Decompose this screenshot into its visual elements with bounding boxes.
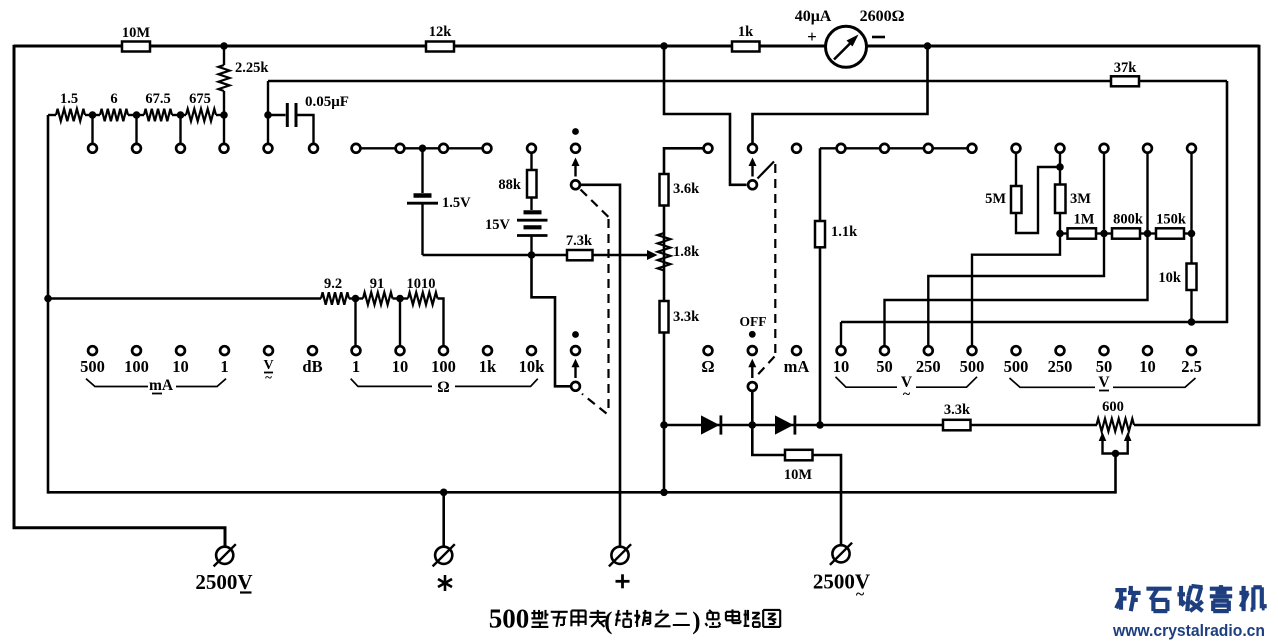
brace V- group [1010,378,1096,387]
wire zero-adjust node y255 [423,254,568,257]
capacitor 0.05uF [286,103,289,127]
resistor 3M branch [1059,152,1061,185]
svg-text:67.5: 67.5 [145,91,170,107]
wire left border [13,45,16,529]
node 1.1k bottom [816,421,824,429]
svg-text:10: 10 [392,357,409,376]
diode row wire [664,424,943,427]
resistor 1k [732,42,760,52]
terminal circles bottom deck row [88,346,97,355]
resistor 5M branch [1015,152,1017,186]
svg-text:1010: 1010 [407,276,436,292]
wire 7.3k to 1.8k wiper arrow [593,254,649,256]
resistor 9.2 91 1010 chain [48,297,321,300]
node tap 67.5/675 [177,111,185,119]
rheostat 600 wiper arrows [1099,432,1107,441]
dashed link right switch [758,162,775,179]
wire meter-left path to deck1 right wiper [664,46,747,185]
svg-text:10: 10 [833,357,850,376]
wire second bus y81 [268,80,1227,83]
svg-text:10k: 10k [1158,270,1182,286]
divider chain 1M 800k 150k [1056,230,1064,238]
wire 3.6k branch top [664,148,703,425]
svg-text:9.2: 9.2 [324,276,342,292]
svg-text:2.25k: 2.25k [235,60,269,76]
svg-text:~: ~ [903,387,911,402]
svg-text:mA: mA [784,357,810,376]
svg-text:~: ~ [265,370,272,385]
svg-text:40μA: 40μA [795,8,832,25]
resistor 10k [1190,234,1192,264]
node cap junction [264,111,272,119]
svg-text:88k: 88k [498,177,522,193]
svg-text:2.5: 2.5 [1181,357,1202,376]
node 3.3k-diode drop [660,489,668,497]
svg-text:500: 500 [489,604,530,634]
svg-text:37k: 37k [1114,60,1138,76]
node tap 1.5/6 [89,111,97,119]
wire to 2500V jack [13,528,226,547]
resistor 2.25k [223,46,225,65]
resistor 37k [1111,76,1139,86]
node 600 wiper junction [1112,450,1120,458]
wire resistor chain y115 [48,114,56,116]
svg-text:250: 250 [1048,357,1073,376]
resistor 6 [100,109,128,121]
dashed link left switch [581,190,609,218]
brace V~ group [836,377,898,387]
wire deck stems to divider [1103,152,1105,234]
wire wiper to plus jack [581,185,620,548]
svg-text:1.8k: 1.8k [673,244,700,260]
svg-text:V: V [1098,374,1110,391]
svg-text:1M: 1M [1074,212,1095,228]
svg-text:OFF: OFF [740,314,767,329]
svg-text:500: 500 [1004,357,1029,376]
stair wire V~500 [972,234,1060,347]
wire 3.3k to 600 [971,424,1098,427]
svg-text:600: 600 [1102,399,1124,415]
node 10k bottom [1188,318,1196,326]
svg-text:2500V: 2500V [195,570,252,594]
wire top deck link 356-487 [356,147,487,149]
svg-text:(: ( [604,608,612,635]
resistor 10M (top) [122,42,150,52]
terminal circles bottom deck right [704,346,713,355]
svg-text:~: ~ [856,586,865,603]
svg-text:3.3k: 3.3k [944,402,971,418]
wire meter-right path to deck1 right top contact [753,46,928,144]
wire battery negative path to ohm-adj wiper [532,255,571,386]
rotary switch deck1 left wiper [572,128,579,135]
svg-text:800k: 800k [1113,212,1144,228]
svg-text:1.1k: 1.1k [831,224,858,240]
svg-text:0.05μF: 0.05μF [305,94,349,110]
wire right border [1258,45,1261,426]
rotary deck2 left wiper (ohm adj) [572,331,579,338]
terminal circles top deck right [704,144,713,153]
svg-text:6: 6 [110,91,117,107]
resistor 3.3k (vertical) [660,301,669,333]
svg-text:675: 675 [189,91,211,107]
svg-text:1: 1 [220,357,228,376]
svg-text:3M: 3M [1070,191,1091,207]
brace mA group [86,379,148,387]
svg-text:1: 1 [352,357,360,376]
svg-text:): ) [692,608,700,635]
svg-text:1k: 1k [738,24,754,40]
svg-text:10: 10 [1139,357,1156,376]
node battery tap [419,145,427,153]
svg-text:91: 91 [370,276,385,292]
svg-text:250: 250 [916,357,941,376]
node tap 6/67.5 [133,111,141,119]
resistor 12k [426,42,454,52]
svg-text:1.5V: 1.5V [442,195,471,211]
svg-text:12k: 12k [429,24,453,40]
wire cap branch [267,81,269,144]
meter M 40uA 2600ohm [826,26,867,67]
node OFF wiper bottom [749,421,757,429]
resistor 3.3k (rectifier) [943,420,971,431]
jack plus [611,547,628,564]
resistor 1.5 [56,109,85,121]
jack 2500V DC [216,547,233,564]
watermark crystalradio logo [1115,588,1126,592]
svg-text:50: 50 [876,357,893,376]
wire top bus [14,45,1259,48]
svg-text:10: 10 [172,357,189,376]
svg-text:mA: mA [149,377,174,394]
svg-text:100: 100 [431,357,456,376]
node star jack [440,489,448,497]
svg-text:Ω: Ω [437,379,449,396]
svg-text:www.crystalradio.cn: www.crystalradio.cn [1112,621,1265,640]
svg-text:7.3k: 7.3k [566,233,593,249]
svg-text:Ω: Ω [701,357,714,376]
node 15V/7.3k junction [528,251,536,259]
wire bottom bus [48,491,1116,494]
wire 37k drop x1227 [1226,81,1229,323]
svg-text:15V: 15V [485,217,511,233]
resistor 3.6k [660,174,669,206]
svg-text:10M: 10M [784,467,813,483]
node chain/2.25k junction [220,111,228,119]
jack 2500V AC [832,545,849,562]
node junction top of 2.25k [220,42,228,50]
diode D2 [775,415,794,434]
tap stems to top deck row [91,115,93,144]
jack star common [435,547,452,564]
svg-text:150k: 150k [1156,212,1187,228]
node meter right junction [924,42,932,50]
rheostat 600 [1097,419,1135,432]
svg-text:dB: dB [302,357,322,376]
node meter left junction [660,42,668,50]
stems ohm taps to deck2 [354,299,356,347]
battery 1.5V [421,148,423,193]
svg-text:1.5: 1.5 [60,91,78,107]
svg-text:5M: 5M [985,191,1006,207]
terminal circle mA position top [792,144,801,153]
potentiometer 1.8k [658,233,671,271]
svg-text:500: 500 [80,357,105,376]
resistor 10M (HV) [752,425,785,455]
wire 600 to right border [1134,424,1261,427]
stair wire V~250 [928,234,1104,347]
wire left drop x48 [47,115,50,494]
diode D1 [701,415,720,434]
svg-text:3.6k: 3.6k [673,181,700,197]
resistor 67.5 [144,109,172,121]
svg-text:3.3k: 3.3k [673,309,700,325]
brace ohm group [351,379,432,387]
rotary switch deck1 right wiper [748,144,757,153]
svg-text:2600Ω: 2600Ω [860,8,905,25]
svg-text:10M: 10M [122,25,151,41]
battery 15V [530,198,532,211]
resistor 7.3k [567,250,593,260]
svg-text:10k: 10k [519,357,546,376]
svg-text:500: 500 [960,357,985,376]
svg-text:100: 100 [124,357,149,376]
svg-text:+: + [807,27,817,46]
node 3.3k bottom [660,421,668,429]
resistor 88k [530,152,532,170]
svg-text:1k: 1k [479,357,497,376]
resistor 1.1k branch [819,148,822,221]
stair wire V~50 [885,234,1148,347]
wire deck1 right link 820-972 [820,147,972,149]
resistor 675 [186,109,216,121]
wire V~10 to 37k bottom y322 [841,321,1228,324]
terminal circles top deck row [88,144,97,153]
